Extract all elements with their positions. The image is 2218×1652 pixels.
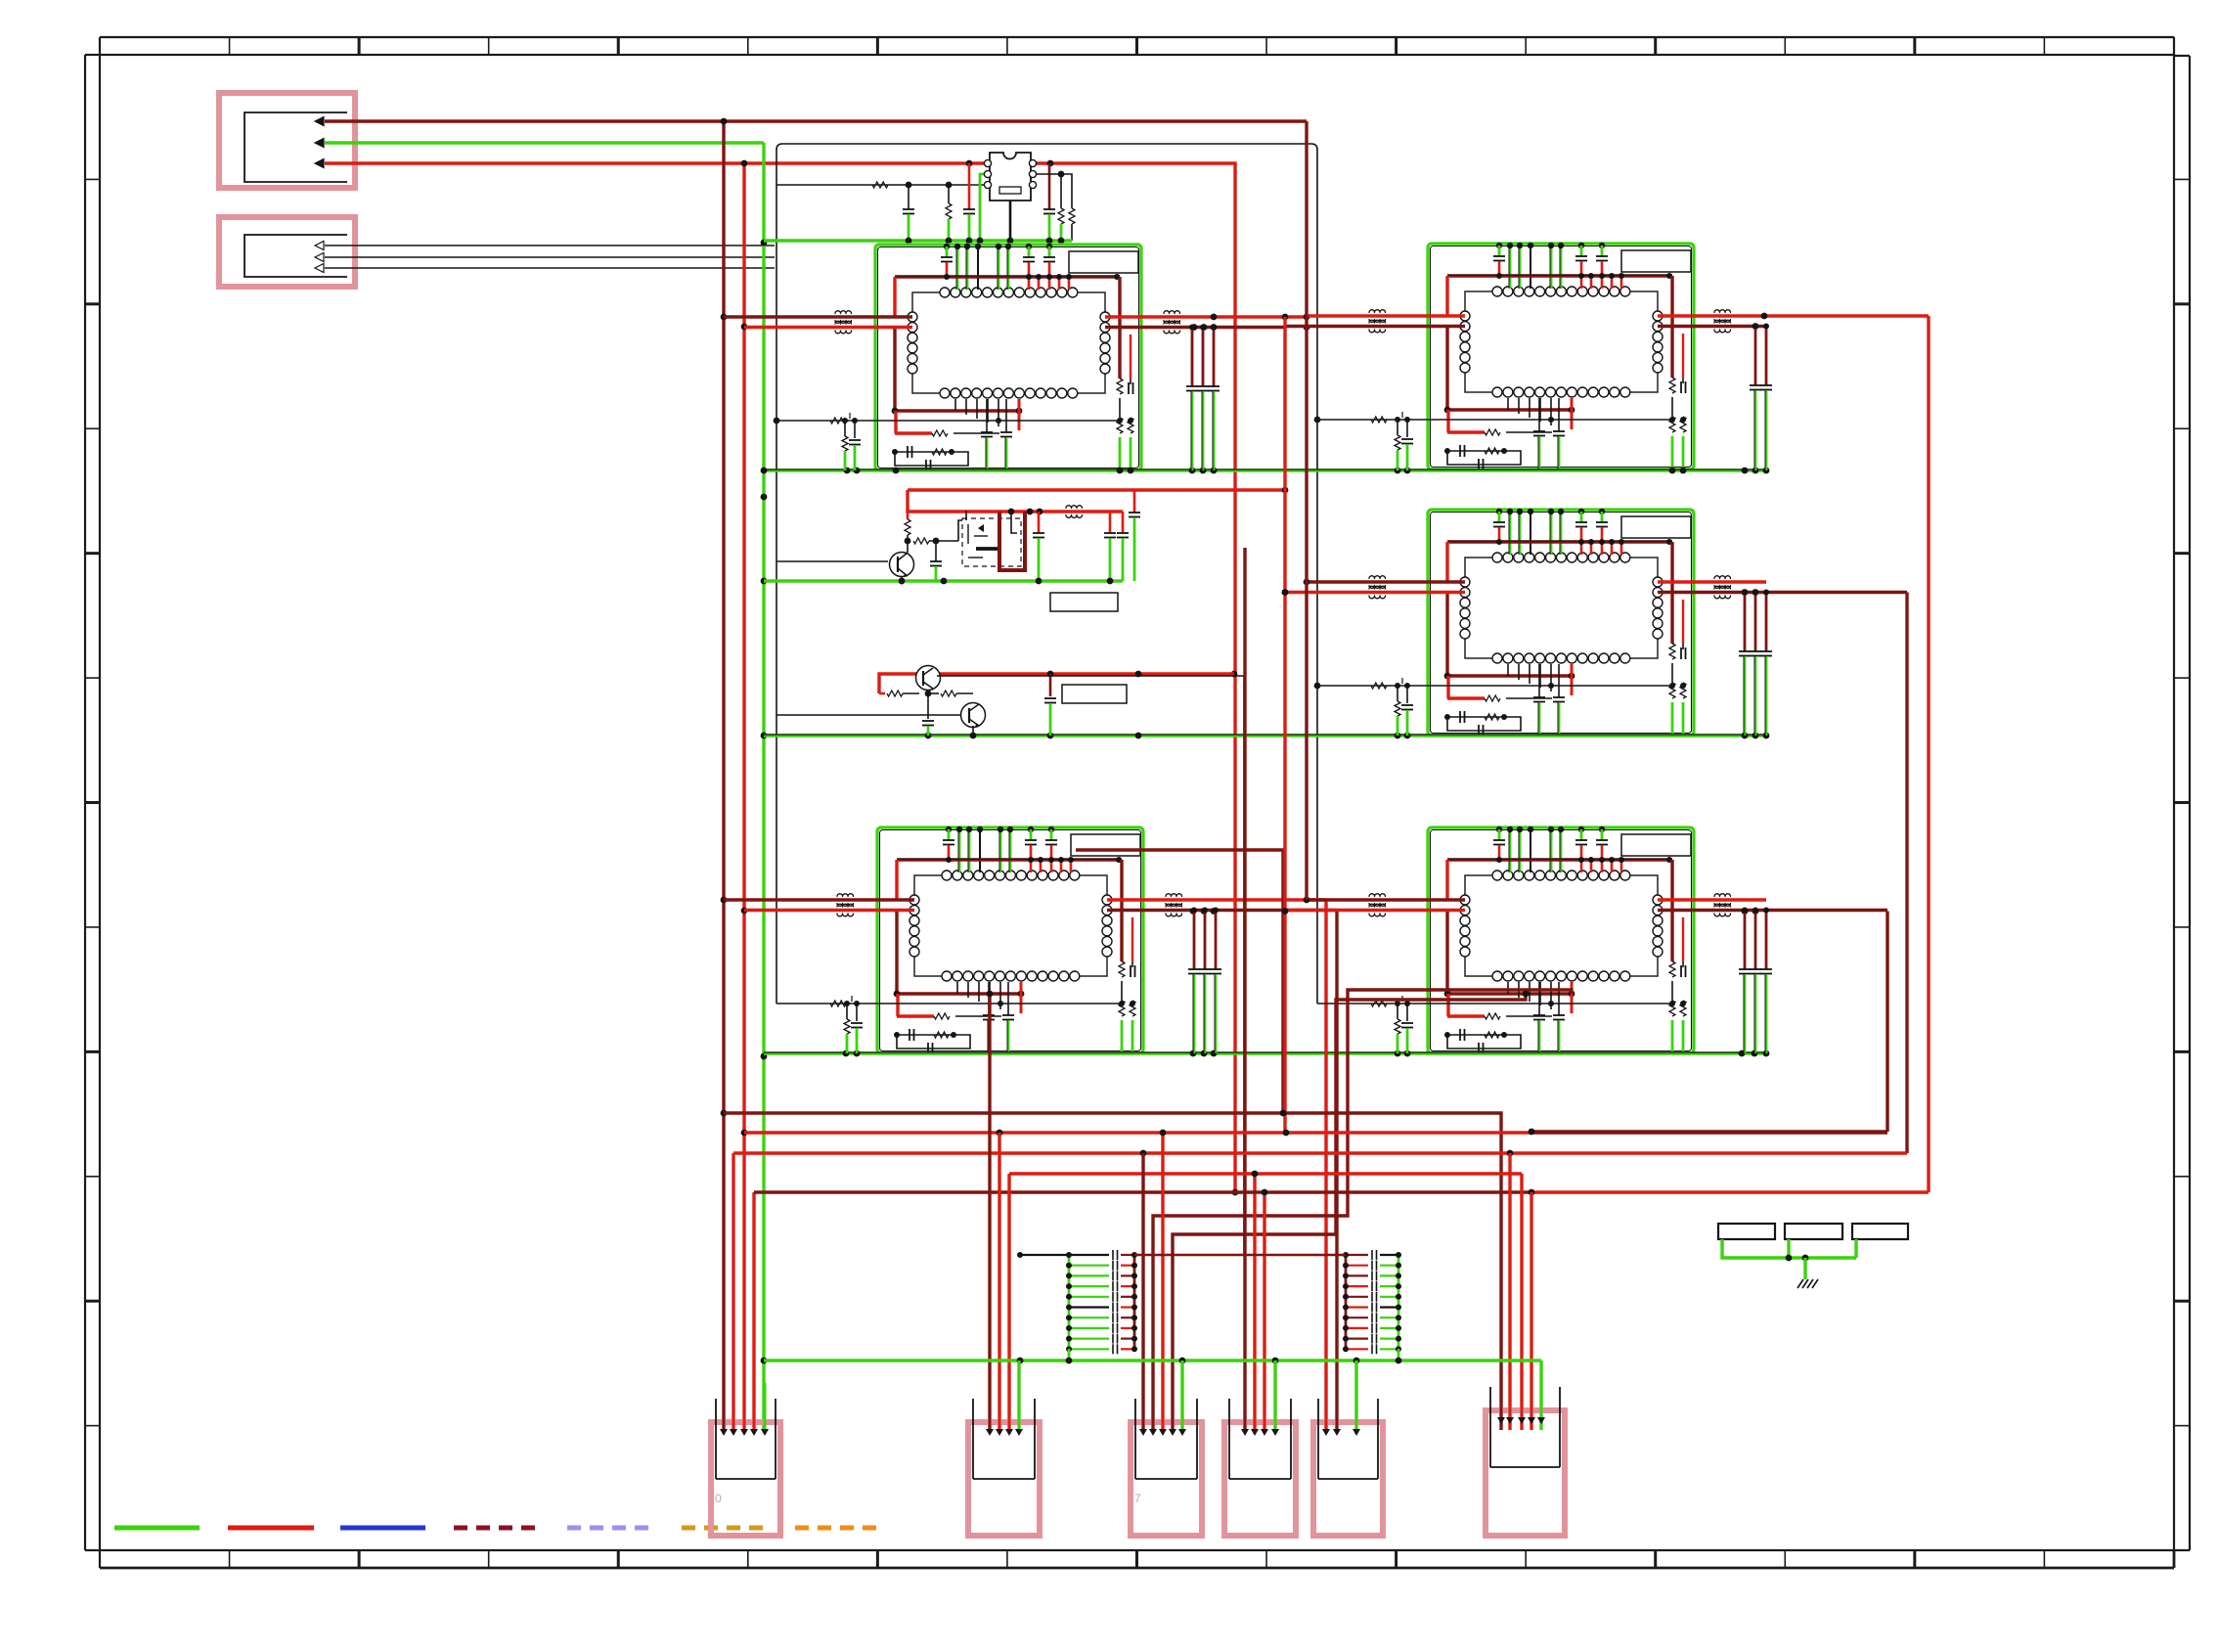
- IC U4: [877, 826, 1143, 1054]
- connector J2 (left): [219, 217, 355, 287]
- wire maroon x1169 to P3: [1141, 1153, 1144, 1430]
- green bus y752 under U3: [764, 733, 1769, 739]
- capacitor C13: [1117, 512, 1129, 581]
- wire X1 ground: [1009, 201, 1012, 241]
- wire U5 black tap: [1317, 996, 1686, 1053]
- option box B1: [1718, 1224, 1775, 1239]
- transistor Q2: [916, 666, 941, 691]
- option box B2: [1785, 1224, 1842, 1239]
- connector P2: [968, 1383, 1040, 1536]
- wire red x1032 to P2: [1007, 1174, 1010, 1430]
- U1 decoupling stubs: [1186, 325, 1220, 471]
- capacitor array CA1 (left): [1017, 1250, 1137, 1361]
- wire U5 maroon to right: [1885, 912, 1888, 1133]
- wire red x750 to P1: [732, 1153, 734, 1430]
- wire maroon y1138 (x740 to P6): [724, 1110, 1501, 1430]
- wire Q3 emitter: [972, 726, 974, 736]
- wire red y689: [879, 671, 1234, 693]
- wire red x1189 to P3: [1160, 1130, 1167, 1430]
- wire Q3 base black: [776, 714, 961, 716]
- wire J1 pin1 dark-red: [315, 117, 1307, 126]
- wire maroon x1012 to P2: [987, 991, 994, 1430]
- wire U3 output pair: [1658, 576, 1907, 599]
- wire green bus x781 (J1.2 to P1): [761, 143, 768, 1430]
- capacitor C11: [1033, 512, 1044, 581]
- wire U4 out down to P5: [1326, 900, 1337, 1430]
- resistor R1 (osc): [872, 182, 888, 188]
- wire green x1042 to P2: [1017, 1361, 1020, 1430]
- wire M1 black legs: [966, 511, 1017, 533]
- green bus y1391: [764, 1358, 1541, 1364]
- wire maroon U4 label to bundle: [1076, 850, 1283, 1113]
- green bus y1077 under U4 U5: [764, 1050, 1769, 1057]
- resistor R4: [1069, 208, 1075, 241]
- wire green option boxes: [1722, 1239, 1856, 1279]
- wire U5 bottom maroon to P3: [1153, 990, 1572, 1430]
- IC U3: [1428, 509, 1694, 737]
- connector P5: [1313, 1383, 1383, 1536]
- wire J1 pin2 green: [315, 139, 764, 148]
- wire red x1544 to P6: [1508, 1153, 1511, 1430]
- wire maroon x1273 to P4: [1243, 548, 1246, 1430]
- ferrite bead FB1: [1066, 506, 1083, 518]
- IC U2: [1428, 243, 1694, 470]
- wire red x1022 to P2: [998, 1133, 1000, 1430]
- wire maroon y1157 right: [1529, 1129, 1887, 1136]
- wire red y1219: [754, 1189, 1929, 1196]
- wire X1 black y189: [776, 182, 990, 189]
- wire J2 pin3: [315, 264, 775, 273]
- connector P4: [1224, 1383, 1296, 1536]
- wire green x1387 to P5: [1354, 1361, 1357, 1430]
- capacitor C14: [922, 693, 934, 736]
- wire U1 input pair: [724, 311, 912, 334]
- capacitor C4 (osc dark-red): [1043, 163, 1055, 241]
- green rail y594: [764, 578, 1123, 585]
- capacitor C1 (osc red): [963, 163, 975, 241]
- capacitor C16 (rail end): [1129, 490, 1140, 581]
- IC U5: [1428, 826, 1694, 1054]
- ground symbol: [1797, 1279, 1818, 1288]
- wire red x1314 (U1 out to bundle): [1282, 317, 1289, 1133]
- U4 decoupling stubs: [1188, 908, 1221, 1054]
- wire U5 input pair: [1285, 894, 1465, 916]
- wire U5 output pair: [1658, 894, 1887, 916]
- wire red y1179: [733, 1150, 1907, 1157]
- option box B3: [1852, 1224, 1908, 1239]
- wire black Q2 collector to bundle: [937, 676, 1244, 1255]
- oscillator X1: [984, 153, 1036, 201]
- U3 decoupling stubs: [1739, 590, 1772, 737]
- U5 decoupling stubs: [1739, 908, 1772, 1054]
- connector P6: [1486, 1371, 1565, 1536]
- wire green x1304 to P4: [1273, 1361, 1276, 1430]
- wire U4 black tap: [776, 996, 1135, 1053]
- resistor R2 (osc): [946, 185, 952, 241]
- wire maroon array link y1283: [1134, 1254, 1346, 1257]
- wire U1 output pair: [1105, 311, 1307, 334]
- wire U5 maroon to P3 second: [1173, 991, 1529, 1430]
- wire J2 pin1: [315, 242, 775, 250]
- wire red x771 to P1: [752, 1192, 755, 1430]
- wire U1 black tap: [776, 413, 1133, 470]
- transistor Q1: [890, 553, 914, 578]
- wire red power rail y523: [908, 487, 1288, 515]
- U2 decoupling stubs: [1750, 324, 1772, 471]
- wire U4 input pair: [724, 894, 914, 916]
- wire Q1 base black: [776, 560, 888, 562]
- svg-text:7: 7: [1134, 1492, 1141, 1505]
- wire green osc stub: [980, 174, 986, 241]
- wire M1 maroon loop: [999, 512, 1025, 570]
- wire red bus x761 (J1.3 to P1): [741, 160, 748, 1430]
- wire red y1200: [1009, 1171, 1522, 1178]
- wire dark-red bus x740 (J1.1 to P1): [721, 118, 728, 1430]
- resistor R13: [928, 691, 973, 696]
- wire Q1 emitter: [899, 576, 906, 584]
- MOSFET M1 dashed box: [962, 518, 1021, 566]
- resistor R11: [905, 520, 962, 544]
- wire U2 output pair: [1658, 310, 1929, 333]
- capacitor C2: [903, 185, 914, 241]
- resistor R3: [1058, 174, 1064, 241]
- wire U3 input pair: [1285, 576, 1465, 599]
- wire red y1158: [744, 1130, 1887, 1137]
- wire U2 input pair: [1285, 310, 1465, 333]
- connector J1 (top-left): [219, 93, 355, 188]
- module boundary box left: [776, 144, 1317, 1004]
- connector P1: [711, 1383, 780, 1536]
- wire U4 output pair: [1107, 894, 1337, 916]
- wire J1 pin3 red: [315, 159, 1238, 1196]
- wire green x1576 to P6: [1539, 1361, 1542, 1430]
- capacitor C10: [930, 541, 942, 581]
- wire red x1556 to P6: [1520, 1174, 1523, 1430]
- svg-text:0: 0: [715, 1492, 722, 1505]
- capacitor array CA2 (right): [1343, 1250, 1401, 1361]
- wire J2 pin2: [315, 253, 775, 262]
- wire red x1283 (y1200 to P4): [1253, 1174, 1256, 1430]
- wire maroon x1336 (J1.1 rail): [1305, 121, 1308, 900]
- green rail y246 under oscillator: [764, 238, 1072, 245]
- wire red x1293 (y1219 to P4): [1263, 1192, 1265, 1430]
- wire U2 red to right: [1927, 316, 1930, 1192]
- wire U2 black tap: [1317, 412, 1686, 470]
- wire red x1566 to P6: [1530, 1192, 1532, 1430]
- wire U3 black tap: [1317, 678, 1686, 736]
- capacitor C15: [1044, 674, 1056, 736]
- wire U3 maroon to right: [1905, 593, 1908, 1154]
- connector P3: [1131, 1383, 1202, 1536]
- label box PS1: [1050, 593, 1118, 611]
- resistor R12: [879, 691, 931, 697]
- IC U1: [875, 244, 1141, 471]
- legend wire-color key: [114, 1526, 881, 1531]
- wire X1 right black: [1031, 171, 1072, 208]
- capacitor C12: [1104, 512, 1116, 581]
- label box PS2: [1062, 685, 1127, 703]
- resistor R10: [905, 512, 910, 553]
- wire green x1209 to P3: [1180, 1361, 1183, 1430]
- green bus y481 under U1 U2: [761, 468, 1770, 474]
- transistor Q3: [961, 703, 986, 729]
